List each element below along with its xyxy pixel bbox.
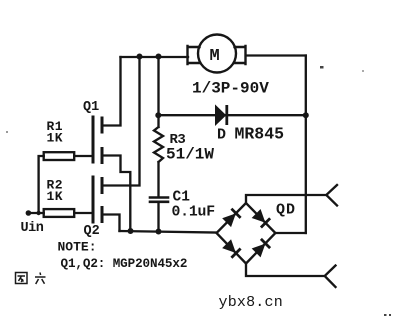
svg-text:0.1uF: 0.1uF xyxy=(172,205,215,221)
svg-text:NOTE:: NOTE: xyxy=(58,240,97,255)
svg-text:1/3P-90V: 1/3P-90V xyxy=(192,80,269,98)
svg-text:Q1: Q1 xyxy=(83,100,99,115)
svg-text:C1: C1 xyxy=(173,190,191,206)
svg-text:Q2: Q2 xyxy=(84,224,100,239)
svg-text:D: D xyxy=(217,127,226,144)
svg-text:Uin: Uin xyxy=(21,221,44,236)
svg-text:1K: 1K xyxy=(47,189,64,204)
svg-text:MR845: MR845 xyxy=(235,125,285,144)
svg-text:M: M xyxy=(210,47,220,66)
svg-text:51/1W: 51/1W xyxy=(166,146,214,164)
svg-text:Q1,Q2: MGP20N45x2: Q1,Q2: MGP20N45x2 xyxy=(61,257,188,271)
svg-text:QD: QD xyxy=(276,202,296,219)
svg-text:ybx8.cn: ybx8.cn xyxy=(219,294,283,311)
svg-text:1K: 1K xyxy=(47,131,64,146)
